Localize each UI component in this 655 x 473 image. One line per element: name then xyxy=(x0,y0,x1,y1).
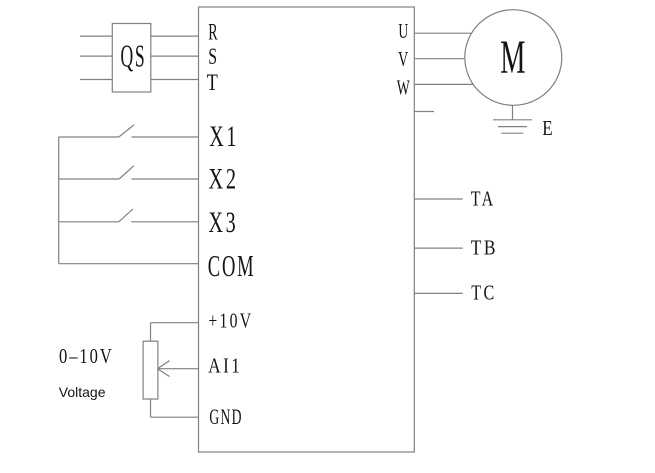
svg-text:R: R xyxy=(208,19,218,44)
svg-text:QS: QS xyxy=(121,37,147,73)
wire TB xyxy=(414,247,462,249)
wire common bus vertical xyxy=(58,137,60,264)
wire R input left xyxy=(80,35,112,37)
ground earth symbol xyxy=(493,120,532,133)
svg-text:T: T xyxy=(207,70,218,95)
breaker QS box xyxy=(112,24,151,93)
wire QS to terminal S xyxy=(151,55,199,57)
switch K2 on X2 xyxy=(59,166,199,179)
svg-text:E: E xyxy=(542,116,552,140)
svg-text:COM: COM xyxy=(208,248,256,283)
wire V to motor xyxy=(414,58,465,60)
svg-text:W: W xyxy=(397,75,410,99)
svg-text:X3: X3 xyxy=(209,206,239,239)
svg-text:V: V xyxy=(398,47,408,71)
wire U to motor xyxy=(414,32,471,34)
svg-text:+10V: +10V xyxy=(208,309,253,333)
wire pot bottom xyxy=(150,399,152,417)
wire S input left xyxy=(80,55,112,57)
svg-text:X2: X2 xyxy=(209,162,239,195)
svg-text:U: U xyxy=(398,19,408,43)
svg-text:AI1: AI1 xyxy=(208,354,242,378)
wire GND xyxy=(151,416,199,418)
wire QS to terminal R xyxy=(151,35,199,37)
svg-text:X1: X1 xyxy=(209,120,239,153)
switch K1 on X1 xyxy=(59,125,199,137)
wire W to motor xyxy=(414,83,473,85)
wire T input left xyxy=(80,79,112,81)
svg-text:Voltage: Voltage xyxy=(59,384,106,400)
svg-text:TC: TC xyxy=(471,281,496,305)
inverter block U1 xyxy=(199,7,415,452)
potentiometer RP body xyxy=(143,341,158,399)
motor M circle xyxy=(465,10,562,106)
wire QS to terminal T xyxy=(151,79,199,81)
wire TC xyxy=(414,292,462,294)
svg-text:TA: TA xyxy=(471,186,496,210)
stub wire PE xyxy=(414,111,434,113)
wire AI1 wiper with arrowhead xyxy=(158,361,199,377)
svg-text:GND: GND xyxy=(209,404,242,429)
wire +10V xyxy=(151,322,199,324)
svg-text:0–10V: 0–10V xyxy=(59,344,114,368)
wire motor to earth xyxy=(512,105,514,120)
switch K3 on X3 xyxy=(59,209,199,222)
svg-text:S: S xyxy=(208,44,217,69)
svg-text:TB: TB xyxy=(471,236,498,260)
svg-text:M: M xyxy=(500,31,525,84)
wire TA xyxy=(414,198,462,200)
wire pot top xyxy=(150,323,152,342)
wire COM xyxy=(59,263,199,265)
